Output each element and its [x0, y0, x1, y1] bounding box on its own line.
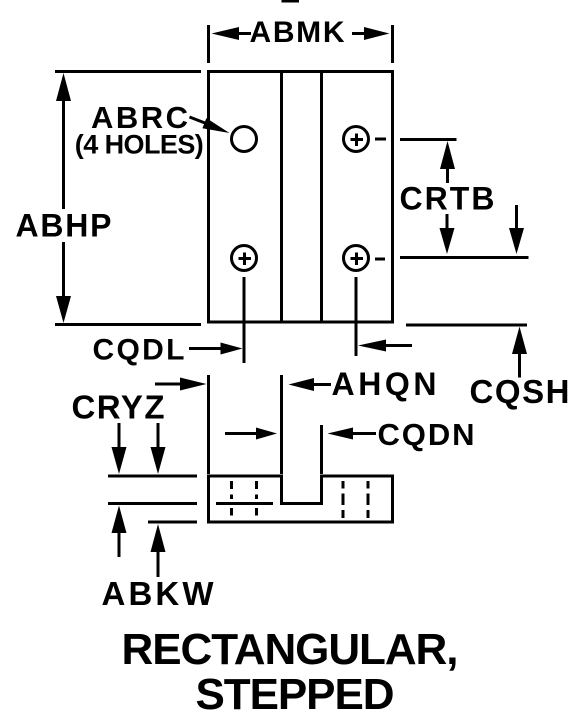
svg-text:CQDL: CQDL	[93, 334, 185, 367]
svg-text:STEPPED: STEPPED	[196, 670, 395, 719]
svg-text:RECTANGULAR,: RECTANGULAR,	[122, 625, 459, 674]
svg-text:AHQN: AHQN	[332, 366, 437, 402]
svg-text:CQDN: CQDN	[378, 417, 475, 452]
svg-text:CQSH: CQSH	[470, 373, 570, 410]
svg-text:CRTB: CRTB	[400, 181, 495, 217]
svg-text:CRYZ: CRYZ	[72, 389, 165, 426]
svg-text:ABHP: ABHP	[16, 208, 112, 244]
svg-text:(4 HOLES): (4 HOLES)	[75, 130, 204, 160]
svg-text:ABMK: ABMK	[250, 16, 345, 49]
svg-text:ABKW: ABKW	[102, 575, 215, 612]
